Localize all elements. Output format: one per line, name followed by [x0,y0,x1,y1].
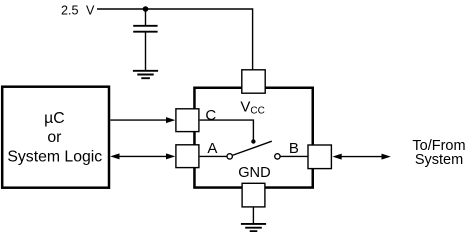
svg-text:B: B [289,140,299,157]
svg-text:µC: µC [44,110,65,127]
svg-text:CC: CC [250,106,264,117]
svg-text:GND: GND [238,165,270,181]
svg-text:System: System [415,152,463,168]
svg-text:A: A [207,140,217,157]
svg-text:V: V [240,99,250,116]
svg-text:V: V [86,3,95,17]
svg-text:or: or [47,129,61,146]
svg-text:2.5: 2.5 [61,3,79,17]
svg-text:System Logic: System Logic [7,148,102,165]
svg-text:C: C [205,107,216,124]
